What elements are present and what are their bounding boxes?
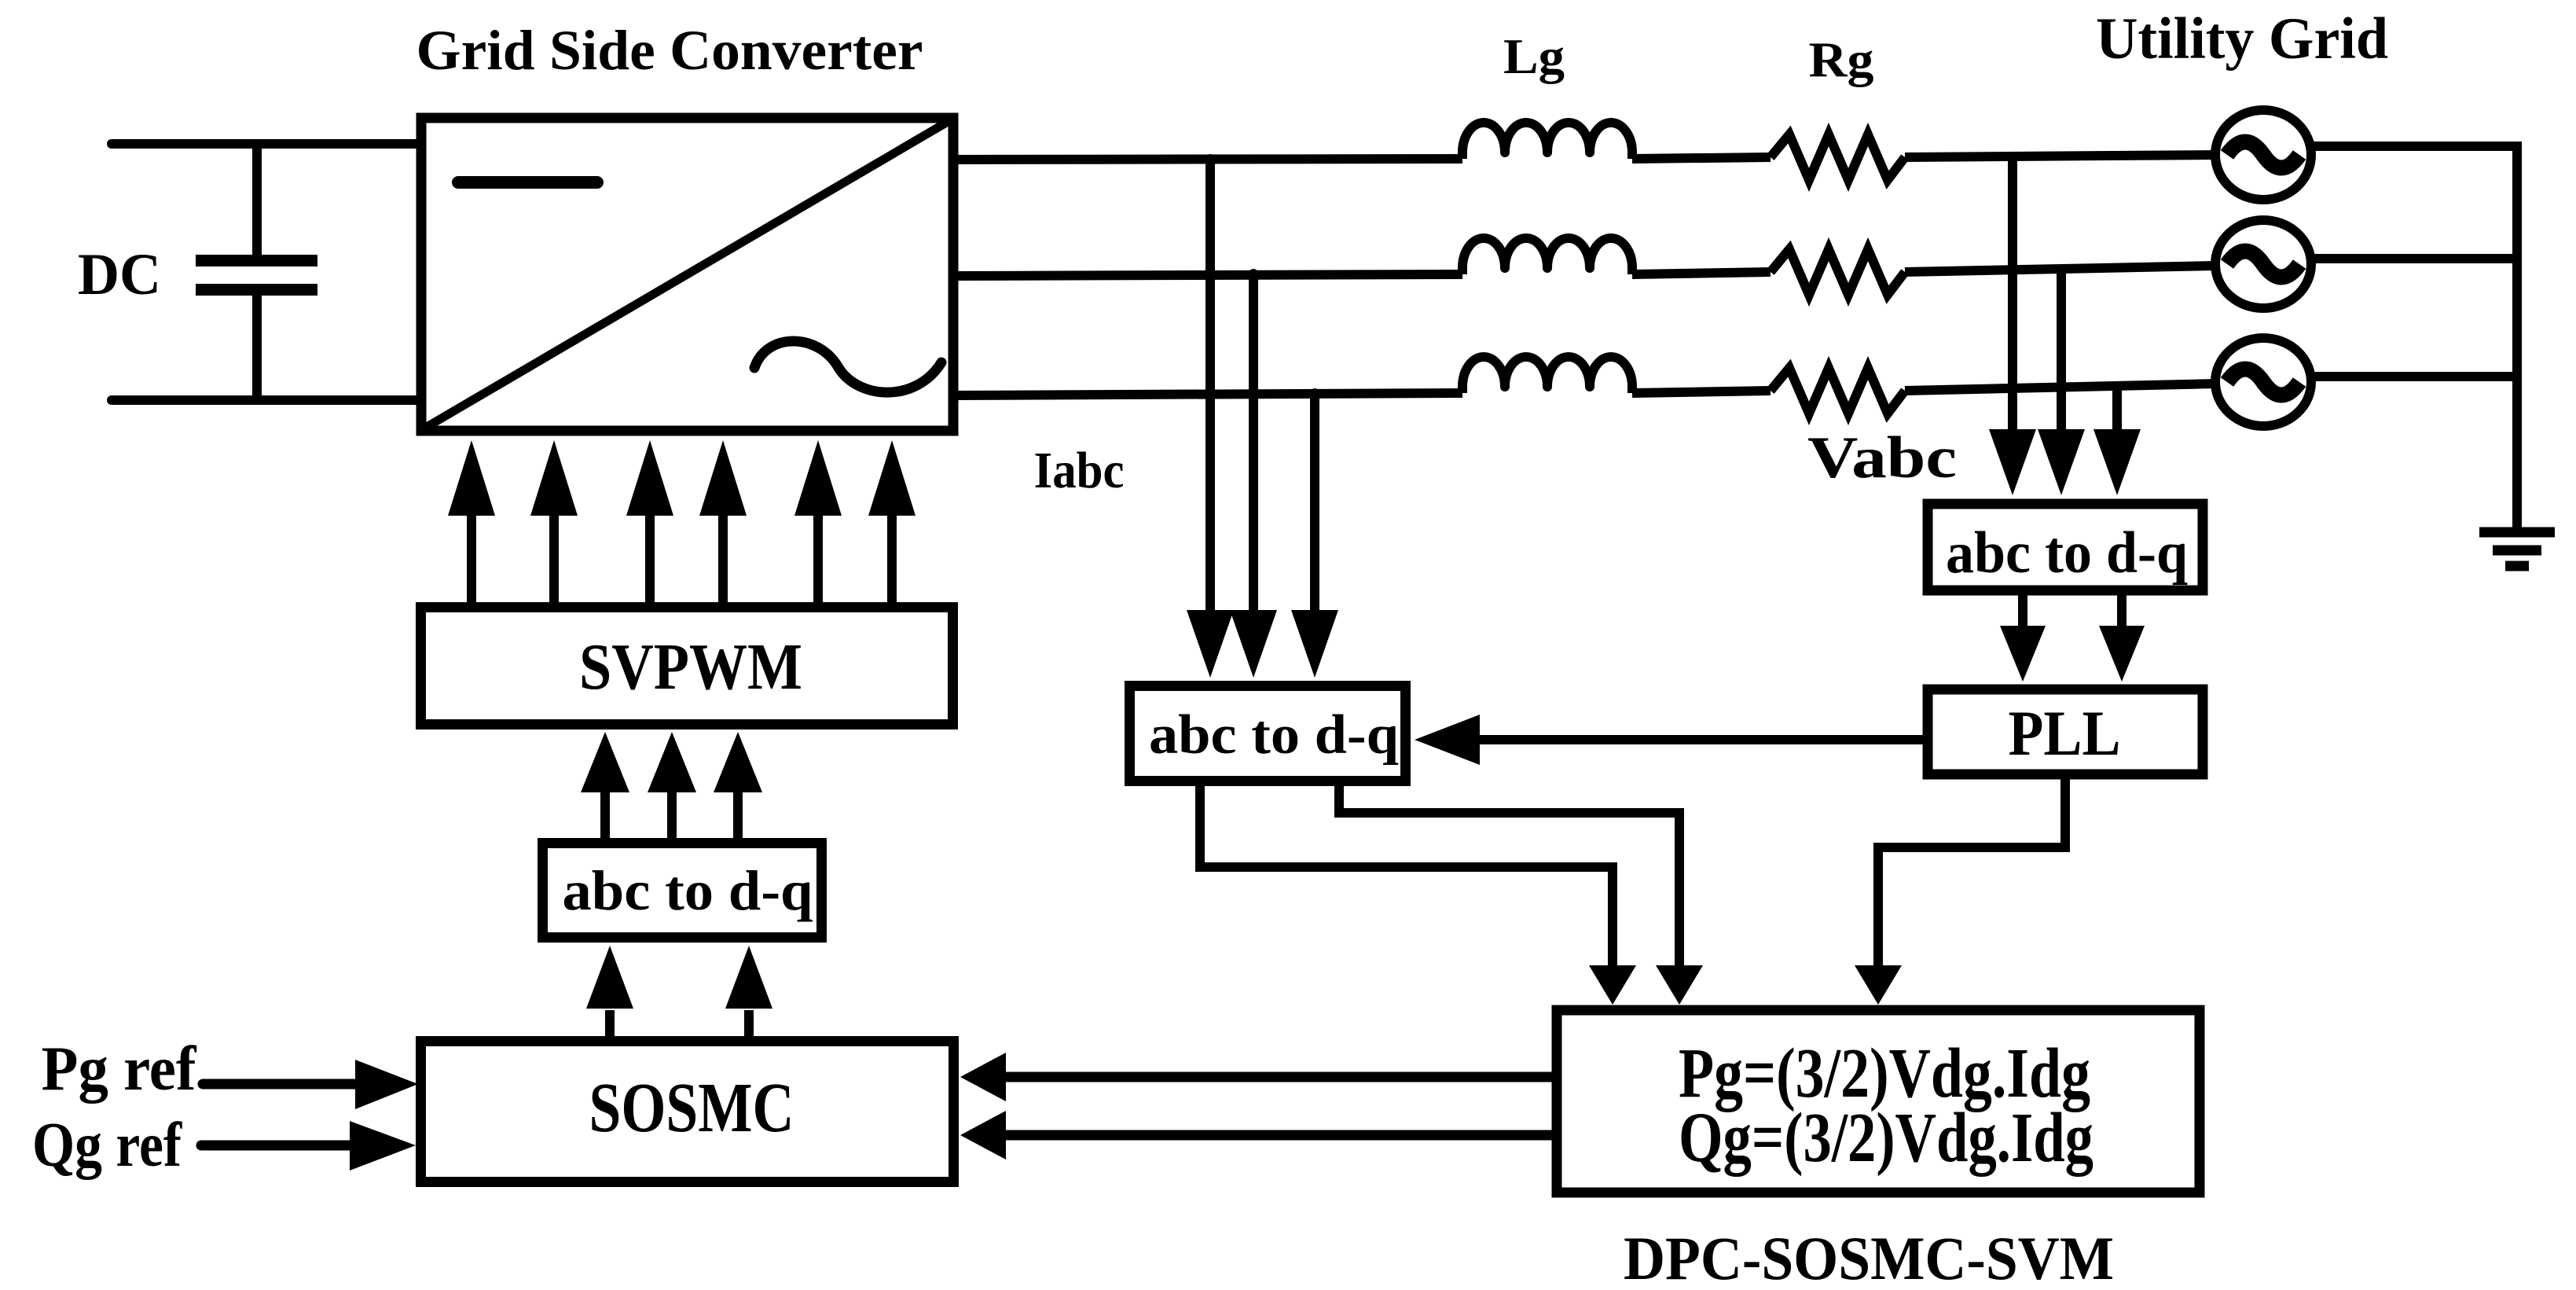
block PLL (1928, 689, 2203, 774)
wire Qg ref into SOSMC (201, 1121, 416, 1171)
wire Qg feedback DPC to SOSMC (960, 1111, 1552, 1160)
wire phase c (converter to inductor) (954, 393, 1462, 395)
ac source Vc (2215, 338, 2311, 426)
wire Iabc tap phase b (1249, 274, 1258, 613)
wire phase b (converter to inductor) (954, 274, 1462, 276)
svg-text:Vabc: Vabc (1807, 425, 1957, 491)
wire phase a (converter to inductor) (954, 159, 1462, 160)
svg-text:abc to d-q: abc to d-q (1149, 704, 1399, 766)
arrow gate signal 4 (699, 440, 747, 602)
capacitor C1 (DC link) (196, 144, 317, 400)
wire Iabc tap phase c (1310, 393, 1319, 613)
arrow PLL theta to abc-to-dq (middle) (1415, 715, 1923, 765)
arrow Vc* to SVPWM (714, 732, 762, 838)
arrow gate signal 2 (530, 440, 578, 602)
wire Idg from abc-to-dq to DPC (1200, 783, 1613, 968)
wire phase a (inductor to resistor) (1632, 157, 1771, 159)
svg-text:DPC-SOSMC-SVM: DPC-SOSMC-SVM (1624, 1224, 2114, 1290)
block SOSMC (421, 1042, 954, 1182)
inductor Lg phase b (1462, 238, 1632, 274)
arrow Va* to SVPWM (581, 732, 629, 838)
svg-text:abc to d-q: abc to d-q (1946, 520, 2188, 586)
svg-text:Qg=(3/2)Vdg.Idg: Qg=(3/2)Vdg.Idg (1679, 1099, 2093, 1177)
wire Iabc tap phase a (1205, 159, 1215, 613)
arrow Vb* to SVPWM (648, 732, 696, 838)
arrow SOSMC Vd to abc-to-dq (left) (586, 946, 633, 1036)
svg-text:SVPWM: SVPWM (579, 630, 802, 704)
wire grid bus vertical (2512, 141, 2522, 527)
block SVPWM (421, 608, 953, 725)
wire phase b (inductor to resistor) (1632, 272, 1771, 274)
wire source Vc to grid bus (2311, 372, 2522, 381)
wire source Vb to grid bus (2311, 254, 2522, 263)
svg-text:PLL: PLL (2009, 697, 2121, 769)
wire Vabc tap phase b (2057, 266, 2066, 432)
wire phase c (resistor to source) (1905, 384, 2216, 391)
wire DC bus negative (bottom left) (112, 395, 424, 405)
svg-text:Iabc: Iabc (1034, 442, 1125, 499)
wire phase b (resistor to source) (1905, 266, 2216, 272)
resistor Rg phase a (1771, 134, 1905, 180)
svg-text:DC: DC (78, 242, 161, 307)
svg-text:Lg: Lg (1503, 29, 1565, 84)
converter U1 (grid side converter box) (421, 118, 953, 431)
wire Pg ref into SOSMC (203, 1060, 418, 1109)
wire Pg feedback DPC to SOSMC (960, 1053, 1552, 1101)
arrow Vdg to PLL (2000, 595, 2046, 682)
wire Vabc tap phase c (2112, 384, 2122, 432)
arrow gate signal 5 (794, 440, 842, 602)
wire PLL theta to DPC (1878, 779, 2065, 968)
wire Iqg from abc-to-dq to DPC (1339, 781, 1679, 968)
ac source Va (2215, 110, 2311, 200)
arrow SOSMC Vq to abc-to-dq (left) (725, 946, 772, 1036)
inductor Lg phase a (1462, 123, 1632, 159)
block abc to d-q (voltage, right) (1928, 504, 2203, 590)
wire Vabc tap phase a (2008, 156, 2017, 432)
arrow gate signal 3 (626, 440, 673, 602)
ground (2479, 532, 2555, 566)
wire DC bus positive (top left) (112, 139, 424, 149)
svg-text:Qg ref: Qg ref (32, 1111, 182, 1180)
wire phase a (resistor to source) (1905, 155, 2216, 157)
svg-text:Grid Side Converter: Grid Side Converter (416, 19, 923, 82)
ac source Vb (2215, 220, 2311, 308)
svg-text:abc to d-q: abc to d-q (563, 859, 813, 922)
wire source Va to grid bus (2311, 141, 2522, 151)
svg-text:Utility Grid: Utility Grid (2096, 6, 2388, 72)
arrow gate signal 1 (448, 440, 495, 602)
resistor Rg phase c (1771, 368, 1905, 413)
block abc to d-q (left) (543, 843, 822, 938)
arrow Vqg to PLL (2099, 595, 2145, 682)
wire phase c (inductor to resistor) (1632, 391, 1771, 393)
resistor Rg phase b (1771, 249, 1905, 295)
svg-text:SOSMC: SOSMC (589, 1069, 794, 1147)
block abc to d-q (current, middle) (1130, 686, 1406, 781)
svg-text:Rg: Rg (1809, 31, 1874, 87)
arrow gate signal 6 (868, 440, 916, 602)
inductor Lg phase c (1462, 357, 1632, 393)
block DPC power calculation (1557, 1010, 2200, 1193)
svg-text:Pg ref: Pg ref (42, 1035, 197, 1104)
